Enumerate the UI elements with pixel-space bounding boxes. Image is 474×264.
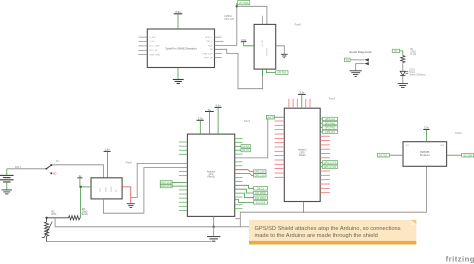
wire switch S1 to TMP36 top pin <box>52 165 104 178</box>
thermistor R1 NTC (vertical zigzag with diagonal) <box>42 211 57 242</box>
svg-text:GPS/SD Shield attaches atop th: GPS/SD Shield attaches atop the Arduino,… <box>255 226 401 232</box>
svg-text:TX: TX <box>346 59 349 62</box>
wire Q : Arduino pin to TMP36 bottom pin <box>103 168 187 214</box>
IC U6 : I2C sensor box Part3 <box>403 142 447 167</box>
wire Arduino pin to GPS 3.3V label (green) <box>235 174 254 176</box>
power +3.3V flag at shield top pin <box>298 91 306 109</box>
wire shield GPS TX label to Arduino pin <box>235 119 268 158</box>
svg-text:3.3v: 3.3v <box>175 10 181 14</box>
LED LED1 5mm Green 565nm <box>400 69 425 77</box>
svg-text:5V: 5V <box>394 50 397 53</box>
wire J1 pin1 <box>350 59 364 61</box>
power +3.3V flag at Arduino top (right) <box>215 103 222 134</box>
svg-text:D11 MOSI: D11 MOSI <box>255 193 266 195</box>
svg-text:Part6: Part6 <box>295 22 302 26</box>
wire node C down to R2 <box>80 187 82 218</box>
net label D4 CS <box>254 187 268 191</box>
net label I2C SDA <box>462 153 474 157</box>
wire J1 pin2 to ground <box>356 64 365 71</box>
svg-text:RXD: RXD <box>208 45 213 47</box>
svg-text:Green (565nm): Green (565nm) <box>409 74 425 77</box>
node D junction dot <box>45 217 47 219</box>
svg-text:Part2: Part2 <box>329 97 336 101</box>
power +3.3V flag at Part5 left <box>241 38 254 46</box>
net label GPS 3.3V (lower) <box>254 174 267 178</box>
wire Arduino pin to D12 MISO label <box>235 193 254 198</box>
IC U4 : Arduino Uno Rev3 box <box>187 134 234 216</box>
svg-text:Shield: Shield <box>299 154 306 157</box>
ground below GM862 <box>173 68 184 84</box>
svg-text:RTS_28: RTS_28 <box>150 50 158 52</box>
power flag 1.5V above TMP36 <box>104 148 111 178</box>
svg-text:D4 CS: D4 CS <box>257 188 264 190</box>
pin Part5 bottom stub (green) <box>262 69 264 76</box>
ground below LED1 <box>398 84 408 88</box>
svg-text:I2C SDA: I2C SDA <box>463 154 472 157</box>
pin shield bottom (green) <box>303 202 305 213</box>
svg-text:GPS PW2: GPS PW2 <box>325 128 336 130</box>
pin 2 arrow of J1 <box>364 62 368 65</box>
op-amp U1 : SparkFun GM862 breakout box <box>147 29 214 68</box>
ground below battery <box>2 190 12 194</box>
svg-text:Serial Diagnostic: Serial Diagnostic <box>349 50 372 54</box>
net label D12 MISO <box>254 196 268 200</box>
power +5V flag at Arduino top (middle) <box>205 108 214 134</box>
svg-text:STAT_LED: STAT_LED <box>202 52 213 55</box>
power +3.3V flag at Arduino top (left) <box>197 116 204 134</box>
svg-text:3.3v: 3.3v <box>198 116 204 120</box>
svg-text:VCC: VCC <box>100 187 102 192</box>
svg-text:D12 MISO: D12 MISO <box>255 198 266 200</box>
wire GM862 pin4 to Part5 bottom pin <box>215 49 263 88</box>
resistor R2 10k (horizontal zigzag) <box>47 208 88 220</box>
svg-text:R-US: R-US <box>410 53 416 56</box>
net label D11 MOSI <box>254 191 268 195</box>
svg-text:(Rev3): (Rev3) <box>207 176 214 179</box>
svg-text:GND GND: GND GND <box>161 186 172 188</box>
svg-text:3.3v: 3.3v <box>216 103 222 107</box>
note : GPS/SD shield annotation <box>249 220 416 245</box>
battery BAT1 <box>0 166 21 189</box>
pin Arduino bottom (green) <box>213 216 215 226</box>
pin Part5 top stub <box>262 16 264 25</box>
net label 5V for LED branch <box>392 49 399 53</box>
pin headers GM862 left pins <box>138 37 147 54</box>
wire node B to sensor bottom (staircase) <box>214 166 427 227</box>
net label GND at Arduino left (lower) <box>160 184 187 188</box>
wire Arduino pin to D13 SCK label <box>235 200 254 203</box>
wire Part5 bottom pin2 to net label <box>266 69 275 73</box>
pin headers Arduino right pins <box>235 139 243 209</box>
IC U2 : level shifter Part6 (vertical box) <box>254 24 276 69</box>
connector J1 : Serial Diagnostic header <box>349 50 372 54</box>
IC U5 : TMP36 sensor box Part4 <box>91 178 122 199</box>
wire P : Arduino pin to TMP36 ground node <box>131 163 188 197</box>
wire thermistor bottom to Arduino ground <box>47 241 212 243</box>
svg-text:Part1: Part1 <box>244 119 251 123</box>
svg-text:GPS-128: GPS-128 <box>224 18 235 21</box>
svg-text:PWR_GND: PWR_GND <box>150 54 161 56</box>
ground at TMP36 right <box>127 204 135 208</box>
net label TX on J1 pin1 <box>344 58 350 62</box>
wire sensor left pin <box>390 154 404 156</box>
ground at Part5 right <box>281 54 288 57</box>
wire Arduino pin to D11 MOSI label <box>235 189 254 193</box>
net label D0 RX at Arduino right <box>235 145 251 149</box>
pin headers shield right pins (red, lower group) <box>320 171 330 193</box>
svg-text:Breakout: Breakout <box>420 154 430 157</box>
wire node A up to net label <box>236 3 238 6</box>
svg-text:TXD_5: TXD_5 <box>206 41 213 43</box>
wire TMP36 left pin <box>81 186 91 188</box>
wire Part5 right pin to ground <box>276 46 285 54</box>
svg-text:RTC_GND: RTC_GND <box>150 46 161 48</box>
svg-text:SparkFun GM862 Breakout: SparkFun GM862 Breakout <box>165 46 197 50</box>
wire node A to Part5 top pin <box>237 6 267 24</box>
net label I2C SCL <box>377 153 389 157</box>
svg-text:NTC: NTC <box>52 213 57 216</box>
label GM862 part name <box>224 15 235 21</box>
svg-text:fritzing: fritzing <box>446 254 474 263</box>
svg-text:GPS CLK: GPS CLK <box>325 119 335 121</box>
svg-text:GND: GND <box>106 187 108 192</box>
net label UC_SHA <box>238 0 250 5</box>
power flag 2V at TMP36 left node <box>77 175 82 187</box>
svg-text:1_5V: 1_5V <box>150 41 155 43</box>
switch S1 lever and contacts <box>45 160 59 175</box>
ground below Arduino <box>207 227 220 241</box>
wire sensor right pin <box>447 154 462 156</box>
svg-text:GPIO_1: GPIO_1 <box>205 37 213 39</box>
node A junction dot <box>236 5 238 7</box>
svg-text:3_3V3: 3_3V3 <box>150 37 157 39</box>
svg-text:Part3: Part3 <box>455 131 462 135</box>
pin headers GM862 right pins <box>215 37 224 57</box>
wire R1 to LED1 <box>402 63 404 72</box>
wire LED1 to ground <box>402 76 404 84</box>
svg-text:R-US: R-US <box>82 213 88 216</box>
svg-text:GPS 3.3 RX: GPS 3.3 RX <box>324 167 337 169</box>
wire Arduino corner stub to staircase <box>235 218 240 220</box>
pin headers shield left pins (red) <box>275 121 285 177</box>
wire node B under note <box>240 226 252 228</box>
svg-text:LV HV: LV HV <box>262 39 264 46</box>
wire net label to resistor R1 <box>400 51 403 56</box>
net label GPI RX1 <box>276 71 289 75</box>
net label D13 SCK <box>254 201 268 205</box>
wire battery to switch S1 <box>7 168 47 170</box>
svg-text:VOUT: VOUT <box>111 186 113 192</box>
svg-text:UC SHA: UC SHA <box>239 1 249 5</box>
net label GND at Arduino left (upper) <box>160 181 187 185</box>
svg-text:GPI RX1: GPI RX1 <box>277 72 287 75</box>
wire TMP36 right pin to ground (red) <box>122 187 131 204</box>
net label GPS TX at shield left <box>266 115 284 119</box>
wire Arduino pin to D4 CS label <box>235 185 254 188</box>
net labels on shield right top <box>320 117 337 134</box>
net label GPS 3.3V (upper) <box>254 170 267 174</box>
resistor R1 330 ohm <box>401 48 417 63</box>
svg-text:D13 SCK: D13 SCK <box>256 203 266 205</box>
ground below J1 <box>350 71 362 77</box>
svg-text:GPIO_05: GPIO_05 <box>204 57 214 59</box>
svg-text:GPS CT2: GPS CT2 <box>325 132 336 134</box>
svg-text:Part4: Part4 <box>126 161 133 165</box>
net labels GPS 3.3 TX / RX on shield right <box>320 161 337 169</box>
power +3.3V flag above sensor <box>423 126 429 142</box>
wire node D branch to node B <box>55 218 214 227</box>
svg-text:GPS 3.3V: GPS 3.3V <box>255 175 266 177</box>
net label D1 TX at Arduino right <box>235 148 251 152</box>
svg-text:NO: NO <box>53 174 57 176</box>
svg-text:TXI RXO: TXI RXO <box>267 48 269 56</box>
node C junction dot <box>79 186 81 188</box>
pin headers shield right pins (red, middle group) <box>320 136 330 158</box>
svg-text:D1 TX: D1 TX <box>242 150 249 152</box>
pin headers shield top pins (red) <box>289 99 310 108</box>
power +3.3V flag at GM862 top <box>174 10 183 29</box>
svg-text:I2C SCL: I2C SCL <box>379 155 388 157</box>
pin 1 arrow of J1 <box>364 58 368 61</box>
svg-text:GPS 3.3 TX: GPS 3.3 TX <box>324 163 337 165</box>
wire GM862 pin3 to node A (top junction) <box>215 6 237 45</box>
node B junction dot at Arduino ground <box>213 226 215 228</box>
pin headers Arduino left pins <box>179 142 188 210</box>
IC U3 : Arduino GPS shield box <box>284 108 320 201</box>
svg-text:GPS PW1: GPS PW1 <box>325 123 336 125</box>
svg-text:made to the Arduino are made t: made to the Arduino are made through the… <box>255 233 378 239</box>
wire Arduino pin to GPS 3.3V label (red) <box>235 170 254 172</box>
svg-text:SCL: SCL <box>406 145 410 147</box>
